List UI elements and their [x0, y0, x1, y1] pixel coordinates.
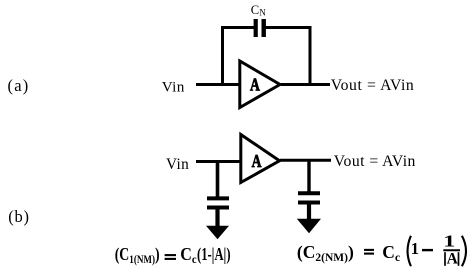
equals sign (left formula): [165, 254, 176, 256]
svg-text:(C2(NM)): (C2(NM)): [297, 242, 354, 264]
capacitor C1 top plate: [207, 196, 229, 200]
capacitor C1 bottom plate: [207, 206, 229, 210]
value label formula C1(NM) = Cc(1-|A|): [115, 244, 231, 266]
wire stem to capacitor C2 (circuit b right): [307, 159, 310, 192]
capacitor C2 bottom plate: [298, 201, 320, 205]
svg-text:(a): (a): [8, 76, 30, 95]
equals sign (right formula): [364, 249, 374, 251]
wire stem below capacitor C1: [215, 209, 219, 227]
svg-text:A: A: [250, 76, 260, 95]
fraction denominator |A|: [444, 252, 446, 266]
wire stem to capacitor C1 (circuit b left): [216, 160, 220, 197]
big right parenthesis: [462, 236, 466, 266]
svg-text:Vout = AVin: Vout = AVin: [334, 153, 416, 170]
svg-text:Vin: Vin: [162, 79, 185, 96]
wire output (circuit a): [281, 83, 330, 86]
ground arrow (circuit b right): [297, 219, 321, 234]
capacitor CN right plate: [262, 19, 266, 37]
wire input (circuit a): [196, 83, 242, 86]
svg-text:(C1(NM)): (C1(NM)): [115, 245, 160, 266]
minus sign: [422, 249, 433, 251]
capacitor C2 top plate: [298, 191, 320, 195]
svg-text:Cc: Cc: [180, 244, 196, 266]
fraction bar: [443, 249, 460, 251]
svg-text:Vout = AVin: Vout = AVin: [331, 77, 415, 94]
wire input (circuit b): [196, 160, 243, 163]
svg-text:1: 1: [411, 239, 419, 258]
svg-text:Cc: Cc: [382, 242, 400, 264]
svg-text:1: 1: [443, 231, 455, 251]
wire stem below capacitor C2: [307, 204, 311, 220]
svg-text:A: A: [447, 251, 459, 268]
wire feedback left vertical (circuit a): [221, 26, 224, 86]
ground arrow (circuit b left): [206, 226, 229, 240]
wire output (circuit b): [280, 159, 331, 162]
svg-text:CN: CN: [251, 3, 266, 17]
big left parenthesis: [408, 236, 411, 266]
value label formula C2(NM) = Cc(1 - 1/|A|): [297, 231, 466, 268]
op-amp A (circuit a): [240, 61, 280, 108]
op-amp A (circuit b): [241, 135, 280, 183]
svg-text:(1-|A|): (1-|A|): [197, 245, 231, 265]
svg-text:Vin: Vin: [166, 156, 189, 173]
svg-text:A: A: [252, 152, 262, 171]
wire feedback top right segment (circuit a): [265, 26, 312, 29]
svg-text:(b): (b): [8, 207, 30, 226]
capacitor CN left plate: [254, 19, 258, 37]
wire feedback top left segment (circuit a): [221, 26, 256, 29]
wire feedback right vertical (circuit a): [309, 26, 312, 86]
